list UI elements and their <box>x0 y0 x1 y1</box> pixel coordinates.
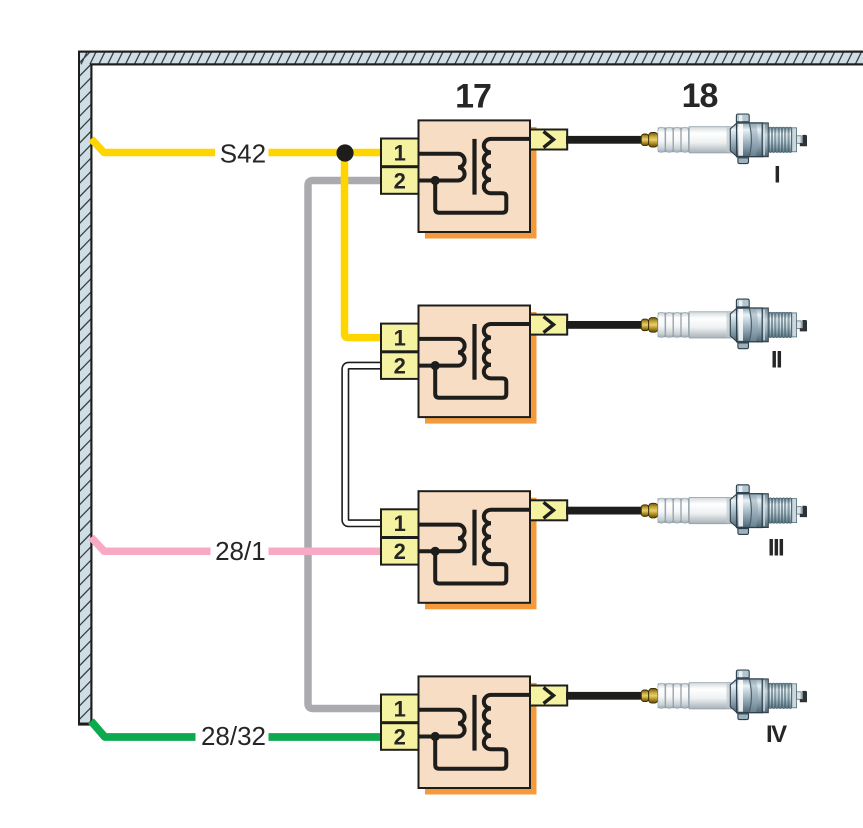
ignition coil 17 (cylinder I): body box <box>419 120 531 232</box>
coil 17/IV connector pin 2 box <box>381 723 419 750</box>
spark plug 18/I: thread ridge <box>776 127 778 153</box>
coil 17/III connector pin 1 box <box>381 509 419 537</box>
spark plug 18/II: ceramic insulator body <box>689 312 731 338</box>
spark plug 18/IV: thread ridge <box>769 683 771 709</box>
coil 17/I HT output connector (yellow with chevron) <box>530 130 567 150</box>
ignition coil 17 (cylinder IV): body box <box>419 676 531 788</box>
coil 17/IV connector pin 1 box <box>381 695 419 723</box>
spark plug 18/II: threaded shell base <box>768 313 791 337</box>
spark plug 18/III: thread ridge <box>789 498 791 524</box>
spark plug 18/III: collar highlight <box>763 495 765 526</box>
wire 28/1: pink feed right segment into coil 17/III pin 2 <box>269 548 382 556</box>
spark plug 18/II: thread ridge <box>779 312 781 338</box>
spark plug 18/II: hex nut left slope <box>730 308 737 342</box>
spark plug 18/III: thread ridge <box>773 498 775 524</box>
spark plug 18/II: thread ridge <box>776 312 778 338</box>
spark plug 18/I: terminal gold bead 2 <box>649 133 658 148</box>
spark plug 18/III: terminal gold bead 1 <box>641 505 648 517</box>
spark plug 18/II: thread ridge <box>783 312 785 338</box>
spark plug 18/I: centre electrode stub <box>797 136 802 144</box>
spark plug 18/II: thread ridge <box>786 312 788 338</box>
spark plug 18/II: insulator rib <box>674 312 681 337</box>
coil 17/III connector pin 2 box <box>381 538 419 565</box>
coil 17/III HT output connector (yellow with chevron) <box>530 500 567 520</box>
spark plug 18/IV: hex bright highlight band <box>738 680 743 712</box>
wire: yellow branch from S42 junction down to coil 17/II pin 1 <box>345 153 382 338</box>
ignition coil 17 (cylinder III): body box <box>419 491 531 603</box>
svg-text:2: 2 <box>394 354 406 379</box>
spark plug 18/I: insulator rib <box>666 127 673 152</box>
spark plug 18/I: terminal gold bead 1 <box>641 134 648 146</box>
spark plug 18/IV: insulator rib <box>666 683 673 708</box>
spark plug 18/IV: thread ridge <box>783 683 785 709</box>
spark plug 18/I: hex facet shading <box>749 124 758 156</box>
spark plug 18/I: ceramic right shading <box>727 127 732 152</box>
spark plug 18/I: thread ridge <box>769 127 771 153</box>
spark plug 18/IV: ceramic insulator body <box>689 683 731 709</box>
spark plug 18/III: shell collar ring <box>762 494 768 528</box>
spark plug 18/IV: ceramic right shading <box>727 683 732 708</box>
spark plug 18/IV: insulator rib <box>681 683 688 708</box>
spark plug 18/III: insulator rib <box>674 498 681 523</box>
spark plug 18/III: threaded shell base <box>768 499 791 523</box>
spark plug 18/I: ribbed insulator base <box>658 127 690 152</box>
spark plug 18/III: ceramic right shading <box>727 498 732 523</box>
coil 17/I transformer core bar <box>472 139 476 195</box>
svg-text:1: 1 <box>394 511 406 536</box>
spark plug 18/IV: insulator rib <box>658 683 665 708</box>
spark plug 18/I: HT lead from coil output <box>566 136 642 144</box>
spark plug 18/III: HT lead from coil output <box>566 507 642 515</box>
spark plug 18/III: hex bright highlight band <box>738 495 743 527</box>
spark plug 18/II: ground electrode hook <box>800 320 807 331</box>
spark plug 18/I: thread ridge <box>779 127 781 153</box>
spark plug 18/IV: terminal gold bead 2 <box>649 689 658 704</box>
spark plug 18/IV: terminal gold bead 1 <box>641 690 648 702</box>
spark plug 18/III: insulator rib <box>681 498 688 523</box>
spark plug 18/II: hex nut body <box>737 308 763 342</box>
spark plug 18/I: hex nut left slope <box>730 123 737 157</box>
spark plug 18/II: insulator rib <box>666 312 673 337</box>
ignition coil 17 (cylinder II): orange drop shadow <box>425 312 537 424</box>
spark plug 18/I: shell collar ring <box>762 123 768 157</box>
svg-text:IV: IV <box>766 721 787 748</box>
spark plug 18/IV: hex nut top corner bump <box>736 670 749 678</box>
spark plug 18/III: ground electrode hook <box>800 506 807 517</box>
spark plug 18/II: hex nut top corner bump <box>736 299 749 307</box>
spark plug 18/II: hex nut bottom corner bump <box>738 343 749 349</box>
coil 17/I secondary winding and return path to HT output <box>435 139 530 213</box>
coil 17/I connector pin 2 box <box>381 167 419 194</box>
spark plug 18/IV: hex top bump highlight <box>739 671 742 677</box>
spark plug 18/IV: hex facet edge line <box>749 680 751 712</box>
spark plug 18/II: centre electrode stub <box>797 321 802 329</box>
coil 17/II secondary winding and return path to HT output <box>435 324 530 398</box>
spark plug 18/I: thread ridge <box>783 127 785 153</box>
coil 17/II HT output chevron mark <box>544 317 554 333</box>
spark plug 18/I: ground electrode hook <box>800 135 807 146</box>
spark plug 18/I: insulator rib <box>658 127 665 152</box>
wire: white link inner white core <box>345 366 381 524</box>
coil 17/II HT output connector (yellow with chevron) <box>530 315 567 335</box>
spark plug 18/I: insulator rib <box>674 127 681 152</box>
wire 28/1: pink feed from left wall to coil 17/III pin 2 (left segment) <box>91 537 210 551</box>
coil 17/II transformer core bar <box>472 324 476 380</box>
ignition coil 17 (cylinder I): orange drop shadow <box>425 127 537 239</box>
coil 17/II primary winding (pin1 to pin2) <box>419 339 465 366</box>
spark plug 18/III: hex nut body <box>737 494 763 528</box>
spark plug 18/IV: hex nut bottom corner bump <box>738 714 749 720</box>
ignition coil 17 (cylinder III): orange drop shadow <box>425 498 537 610</box>
spark plug 18/II: thread ridge <box>773 312 775 338</box>
svg-text:1: 1 <box>394 326 406 351</box>
spark plug 18/II: insulator rib <box>658 312 665 337</box>
spark plug 18/IV: ribbed insulator base <box>658 683 690 708</box>
spark plug 18/II: hex bright highlight band <box>738 309 743 341</box>
spark plug 18/II: hex top bump highlight <box>739 300 742 306</box>
spark plug 18/I: hex nut body <box>737 123 763 157</box>
coil 17/IV HT output chevron mark <box>544 688 554 704</box>
spark plug 18/I: hex top bump highlight <box>739 115 742 121</box>
spark plug 18/IV: collar highlight <box>763 680 765 711</box>
spark plug 18/II: hex facet edge line <box>749 309 751 341</box>
wire: gray link from coil 17/I pin 2 down to coil 17/IV pin 1 <box>308 181 381 709</box>
coil 17/II internal junction dot on pin2 line <box>431 361 440 370</box>
spark plug 18/II: thread ridge <box>769 312 771 338</box>
svg-text:28/32: 28/32 <box>201 721 266 751</box>
spark plug 18/II: insulator rib <box>681 312 688 337</box>
spark plug 18/IV: thread ridge <box>776 683 778 709</box>
coil 17/IV internal junction dot on pin2 line <box>431 732 440 741</box>
spark plug 18/III: hex nut bottom corner bump <box>738 529 749 535</box>
spark plug 18/IV: thread end collar <box>792 684 797 708</box>
svg-text:28/1: 28/1 <box>215 536 266 566</box>
spark plug 18/II: terminal gold bead 2 <box>649 318 658 333</box>
spark plug 18/I: hex nut bottom corner bump <box>738 158 749 164</box>
spark plug 18/IV: shell collar ring <box>762 679 768 713</box>
spark plug 18/II: terminal gold bead 1 <box>641 319 648 331</box>
svg-text:I: I <box>774 162 780 189</box>
spark plug 18/IV: hex facet shading <box>749 680 758 712</box>
svg-text:II: II <box>771 347 782 374</box>
spark plug 18/IV: insulator rib <box>674 683 681 708</box>
spark plug 18/III: insulator rib <box>666 498 673 523</box>
coil 17/I primary winding (pin1 to pin2) <box>419 154 465 181</box>
spark plug 18/II: shell collar ring <box>762 308 768 342</box>
spark plug 18/IV: HT lead from coil output <box>566 692 642 700</box>
coil 17/IV transformer core bar <box>472 695 476 751</box>
spark plug 18/III: thread ridge <box>769 498 771 524</box>
spark plug 18/IV: thread ridge <box>773 683 775 709</box>
coil 17/III secondary winding and return path to HT output <box>435 510 530 584</box>
spark plug 18/I: thread ridge <box>786 127 788 153</box>
spark plug 18/III: thread ridge <box>786 498 788 524</box>
coil 17/IV secondary winding and return path to HT output <box>435 695 530 769</box>
spark plug 18/III: thread ridge <box>783 498 785 524</box>
spark plug 18/II: ceramic right shading <box>727 312 732 337</box>
svg-text:III: III <box>768 535 784 562</box>
wire S42: yellow feed from left wall to coil 17/I pin 1 (left segment) <box>91 139 215 153</box>
spark plug 18/I: ceramic insulator body <box>689 127 731 153</box>
ignition coil 17 (cylinder IV): orange drop shadow <box>425 683 537 795</box>
spark plug 18/III: hex top bump highlight <box>739 486 742 492</box>
spark plug 18/III: ribbed insulator base <box>658 498 690 523</box>
spark plug 18/III: insulator rib <box>658 498 665 523</box>
spark plug 18/I: threaded shell base <box>768 128 791 152</box>
svg-text:S42: S42 <box>220 138 266 168</box>
spark plug 18/III: thread ridge <box>776 498 778 524</box>
svg-text:2: 2 <box>394 539 406 564</box>
svg-text:17: 17 <box>455 77 491 115</box>
wire 28/32: green feed right segment into coil 17/IV pin 2 <box>269 733 382 741</box>
harness wall bottom end cap <box>78 723 92 726</box>
spark plug 18/III: ceramic insulator body <box>689 498 731 524</box>
spark plug 18/II: HT lead from coil output <box>566 321 642 329</box>
spark plug 18/IV: thread ridge <box>789 683 791 709</box>
svg-text:1: 1 <box>394 696 406 721</box>
spark plug 18/III: terminal gold bead 2 <box>649 503 658 518</box>
svg-text:2: 2 <box>394 168 406 193</box>
coil 17/III primary winding (pin1 to pin2) <box>419 525 465 552</box>
coil 17/I HT output chevron mark <box>544 132 554 148</box>
spark plug 18/I: thread end collar <box>792 128 797 152</box>
spark plug 18/I: hex bright highlight band <box>738 124 743 156</box>
wire 28/32: green feed from left wall bottom to coil 17/IV pin 2 (left segment) <box>91 721 196 737</box>
spark plug 18/IV: thread ridge <box>779 683 781 709</box>
coil 17/IV HT output connector (yellow with chevron) <box>530 686 567 706</box>
spark plug 18/I: hex facet edge line <box>749 124 751 156</box>
spark plug 18/III: hex nut top corner bump <box>736 485 749 493</box>
coil 17/I connector pin 1 box <box>381 139 419 167</box>
coil 17/III HT output chevron mark <box>544 502 554 518</box>
spark plug 18/IV: hex nut body <box>737 679 763 713</box>
coil 17/II connector pin 1 box <box>381 324 419 352</box>
spark plug 18/II: ribbed insulator base <box>658 313 690 338</box>
spark plug 18/IV: centre electrode stub <box>797 692 802 700</box>
wire: white link from coil 17/II pin 2 to coil 17/III pin 1 (black outline) <box>345 366 381 524</box>
spark plug 18/III: thread ridge <box>779 498 781 524</box>
spark plug 18/I: hex nut top corner bump <box>736 114 749 122</box>
spark plug 18/II: thread ridge <box>789 312 791 338</box>
wire S42: yellow feed right segment into coil 17/I pin 1 <box>269 149 382 157</box>
spark plug 18/I: thread ridge <box>773 127 775 153</box>
svg-text:18: 18 <box>682 77 718 115</box>
harness wall: hatched L-shaped border (top bar and left bar) <box>78 51 863 733</box>
svg-text:1: 1 <box>394 140 406 165</box>
coil 17/IV primary winding (pin1 to pin2) <box>419 710 465 737</box>
spark plug 18/IV: threaded shell base <box>768 684 791 708</box>
ignition coil 17 (cylinder II): body box <box>419 306 531 418</box>
svg-text:2: 2 <box>394 724 406 749</box>
coil 17/II connector pin 2 box <box>381 352 419 379</box>
spark plug 18/I: thread ridge <box>789 127 791 153</box>
spark plug 18/I: collar highlight <box>763 124 765 155</box>
spark plug 18/II: thread end collar <box>792 313 797 337</box>
spark plug 18/IV: hex nut left slope <box>730 679 737 713</box>
spark plug 18/III: thread end collar <box>792 499 797 523</box>
junction node on wire S42 (branch point) <box>336 144 353 161</box>
coil 17/I internal junction dot on pin2 line <box>431 176 440 185</box>
spark plug 18/III: hex facet shading <box>749 494 758 526</box>
spark plug 18/II: collar highlight <box>763 309 765 340</box>
spark plug 18/III: hex nut left slope <box>730 494 737 528</box>
spark plug 18/III: centre electrode stub <box>797 507 802 514</box>
spark plug 18/IV: ground electrode hook <box>800 691 807 702</box>
spark plug 18/IV: thread ridge <box>786 683 788 709</box>
coil 17/III internal junction dot on pin2 line <box>431 547 440 556</box>
spark plug 18/I: insulator rib <box>681 127 688 152</box>
spark plug 18/III: hex facet edge line <box>749 494 751 526</box>
coil 17/III transformer core bar <box>472 510 476 566</box>
spark plug 18/II: hex facet shading <box>749 309 758 341</box>
